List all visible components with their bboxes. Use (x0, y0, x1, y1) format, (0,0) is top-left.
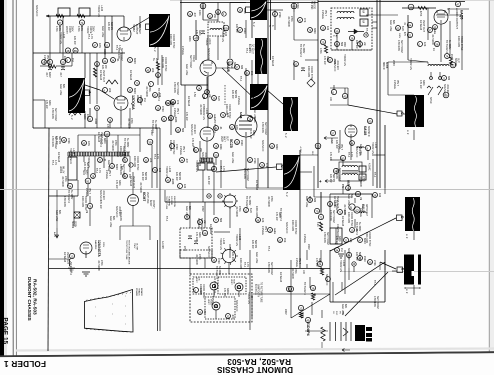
svg-text:B+ 265V: B+ 265V (70, 190, 73, 200)
svg-text:205V: 205V (392, 60, 395, 66)
svg-text:75KV: 75KV (133, 243, 135, 249)
svg-text:560 5%: 560 5% (144, 172, 147, 181)
svg-text:SET HORIZ: SET HORIZ (326, 232, 329, 245)
svg-text:PIN 7: PIN 7 (396, 80, 399, 87)
svg-text:.01: .01 (219, 126, 222, 130)
svg-text:TO TERM 3: TO TERM 3 (151, 120, 154, 133)
svg-text:SOUND IF: SOUND IF (207, 48, 210, 60)
svg-text:47K 1W: 47K 1W (329, 152, 332, 161)
svg-text:HORIZ LIN: HORIZ LIN (87, 156, 90, 168)
svg-text:330K: 330K (252, 130, 255, 136)
svg-text:3RD IF: 3RD IF (382, 62, 385, 70)
svg-text:SET HORIZ: SET HORIZ (332, 210, 335, 223)
svg-text:PAGE 15: PAGE 15 (1, 318, 8, 345)
svg-text:12K 2W: 12K 2W (231, 90, 234, 99)
svg-text:SET HORIZ: SET HORIZ (189, 55, 192, 68)
svg-text:2.2MEG: 2.2MEG (359, 208, 362, 217)
svg-text:47K 1W: 47K 1W (249, 130, 252, 139)
svg-text:2.2MEG: 2.2MEG (303, 234, 306, 243)
svg-text:.0033: .0033 (174, 116, 177, 123)
svg-text:B+ 265V: B+ 265V (126, 138, 129, 148)
svg-text:560 5%: 560 5% (332, 174, 335, 183)
svg-text:HORIZ LIN: HORIZ LIN (247, 292, 250, 304)
svg-text:SOUND IF: SOUND IF (99, 190, 102, 202)
svg-text:SET HORIZ: SET HORIZ (338, 168, 341, 181)
svg-text:TO PICTURE TUBE: TO PICTURE TUBE (260, 282, 262, 303)
svg-text:12K: 12K (423, 42, 426, 47)
svg-text:.047 600V: .047 600V (287, 16, 290, 27)
svg-text:4700 10%: 4700 10% (267, 262, 270, 274)
svg-text:AGC LINE: AGC LINE (55, 210, 58, 222)
svg-text:10%: 10% (98, 43, 101, 49)
svg-text:2.2MEG: 2.2MEG (337, 144, 340, 153)
svg-text:--: -- (124, 295, 127, 297)
svg-text:1M: 1M (85, 210, 87, 213)
svg-text:250K: 250K (92, 26, 95, 32)
svg-text:VERT OUT: VERT OUT (100, 132, 103, 145)
svg-text:WIDTH: WIDTH (65, 26, 68, 34)
svg-text:SPKR: SPKR (429, 97, 432, 104)
svg-text:.001 1KV: .001 1KV (336, 60, 339, 70)
svg-text:82K: 82K (188, 206, 191, 211)
svg-text:L-102: L-102 (168, 166, 171, 173)
svg-text:.047 600V: .047 600V (291, 268, 294, 279)
svg-text:HORIZ LIN: HORIZ LIN (219, 238, 222, 250)
svg-text:270K: 270K (114, 140, 117, 146)
svg-text:L-102: L-102 (100, 5, 103, 12)
svg-text:270K: 270K (198, 254, 201, 260)
svg-text:NORM: NORM (71, 221, 73, 228)
svg-text:1/2 6AU8: 1/2 6AU8 (271, 56, 274, 67)
svg-text:330K: 330K (422, 80, 425, 86)
svg-text:47K: 47K (106, 124, 109, 129)
svg-text:8.2K: 8.2K (249, 208, 252, 213)
svg-text:VERT: VERT (195, 277, 197, 283)
svg-text:100K 10%: 100K 10% (307, 66, 310, 78)
svg-text:SOUND IF: SOUND IF (355, 146, 358, 158)
svg-text:12K 2W: 12K 2W (141, 172, 144, 181)
svg-text:100K 10%: 100K 10% (161, 57, 164, 69)
svg-text:SET HORIZ: SET HORIZ (264, 122, 267, 135)
svg-text:2.2MEG: 2.2MEG (85, 188, 88, 197)
svg-text:AGC LINE: AGC LINE (101, 26, 104, 38)
svg-text:FROM SYNC: FROM SYNC (172, 34, 175, 49)
svg-text:AGC LINE: AGC LINE (185, 206, 188, 218)
svg-text:MULT: MULT (223, 136, 225, 143)
svg-text:VERT OUT: VERT OUT (132, 176, 135, 189)
svg-text:15K: 15K (450, 54, 453, 59)
svg-text:HORIZ LIN: HORIZ LIN (343, 54, 346, 66)
svg-text:560 5%: 560 5% (358, 40, 361, 49)
svg-text:100K 10%: 100K 10% (239, 258, 242, 270)
svg-text:2700: 2700 (183, 246, 185, 252)
svg-text:HORIZ LIN: HORIZ LIN (69, 148, 72, 160)
svg-text:.047 600V: .047 600V (61, 176, 64, 187)
svg-text:CONT: CONT (68, 26, 71, 33)
svg-text:4.7K: 4.7K (222, 166, 225, 171)
svg-text:560 5%: 560 5% (254, 240, 257, 249)
svg-text:SOUND: SOUND (454, 58, 456, 67)
svg-text:HORIZ: HORIZ (86, 26, 89, 34)
svg-text:100K: 100K (198, 10, 201, 16)
svg-text:4700 10%: 4700 10% (173, 82, 176, 94)
svg-text:--: -- (124, 315, 127, 317)
svg-text:10K: 10K (302, 270, 304, 275)
svg-text:L101: L101 (69, 159, 71, 165)
svg-text:HORIZ: HORIZ (205, 38, 208, 46)
svg-text:600V: 600V (133, 58, 136, 64)
svg-text:560: 560 (181, 128, 184, 133)
svg-text:10%: 10% (235, 125, 238, 131)
svg-text:2.2MEG: 2.2MEG (295, 258, 298, 267)
svg-text:.047: .047 (45, 72, 48, 77)
svg-text:47K 1W: 47K 1W (275, 212, 278, 221)
svg-text:VERT OUT: VERT OUT (102, 70, 105, 83)
svg-text:HORIZ LIN: HORIZ LIN (339, 260, 342, 272)
svg-text:B+ 265V: B+ 265V (218, 266, 221, 276)
svg-text:FROM SYNC: FROM SYNC (350, 212, 353, 227)
svg-text:12K 2W: 12K 2W (235, 24, 238, 33)
svg-text:100K 10%: 100K 10% (119, 146, 122, 158)
svg-text:17: 17 (105, 133, 109, 137)
svg-text:1/2 6AU8: 1/2 6AU8 (129, 176, 132, 187)
svg-text:TO PICTURE TUBE: TO PICTURE TUBE (125, 240, 127, 260)
svg-text:100K 10%: 100K 10% (291, 220, 294, 232)
svg-text:.047 600V: .047 600V (139, 182, 142, 193)
svg-text:TP-4: TP-4 (373, 172, 376, 178)
svg-text:SOUND IF: SOUND IF (333, 60, 336, 72)
svg-text:1/2 6AU8: 1/2 6AU8 (255, 180, 258, 191)
svg-text:245V: 245V (201, 206, 204, 212)
svg-text:22K: 22K (349, 238, 352, 243)
svg-text:VERT: VERT (220, 136, 222, 143)
svg-text:47K: 47K (176, 100, 179, 105)
svg-text:TO TERM 3: TO TERM 3 (355, 222, 358, 235)
svg-text:4700 10%: 4700 10% (323, 232, 326, 244)
svg-text:B+ 265V: B+ 265V (302, 44, 305, 54)
svg-text:4700 10%: 4700 10% (261, 122, 264, 134)
svg-text:TO TERM 3: TO TERM 3 (303, 282, 306, 295)
svg-text:SOUND IF: SOUND IF (115, 206, 118, 218)
svg-text:470K: 470K (77, 26, 80, 32)
svg-text:10K: 10K (329, 97, 331, 102)
svg-text:4700 10%: 4700 10% (373, 296, 376, 308)
svg-text:22K: 22K (149, 158, 152, 163)
svg-text:PIN 7: PIN 7 (324, 10, 327, 17)
svg-text:4.7K: 4.7K (248, 48, 251, 53)
svg-text:1/2 6AU8: 1/2 6AU8 (97, 132, 100, 143)
svg-text:100K 10%: 100K 10% (457, 36, 460, 48)
svg-text:SOUND IF: SOUND IF (347, 248, 350, 260)
svg-text:100K 10%: 100K 10% (225, 104, 228, 116)
svg-text:330K: 330K (198, 30, 201, 36)
svg-text:10%: 10% (87, 141, 90, 147)
svg-text:560 5%: 560 5% (358, 252, 361, 261)
svg-text:470K: 470K (67, 138, 70, 144)
svg-text:12K 2W: 12K 2W (55, 136, 58, 145)
svg-text:B+ 265V: B+ 265V (248, 196, 251, 206)
svg-text:5-: 5- (268, 25, 271, 27)
svg-text:DRIVE: DRIVE (89, 26, 92, 34)
svg-text:270K: 270K (100, 260, 103, 266)
svg-text:AGC LINE: AGC LINE (389, 20, 392, 32)
svg-text:HORIZ LIN: HORIZ LIN (195, 160, 198, 172)
svg-text:B+ 265V: B+ 265V (154, 120, 157, 130)
svg-text:3300: 3300 (275, 144, 278, 150)
svg-text:.047 600V: .047 600V (127, 118, 130, 129)
svg-text:SOUND IF: SOUND IF (261, 140, 264, 152)
svg-text:+135V: +135V (299, 146, 301, 153)
svg-text:4.7K: 4.7K (118, 45, 121, 50)
svg-text:PIN 7: PIN 7 (108, 170, 111, 177)
svg-text:SET HORIZ: SET HORIZ (122, 164, 125, 177)
svg-text:1/2 6AU8: 1/2 6AU8 (57, 152, 60, 163)
svg-text:TO TERM 3: TO TERM 3 (69, 262, 72, 275)
svg-text:1/2 6AU8: 1/2 6AU8 (187, 96, 190, 107)
svg-text:RA-502, RA-503: RA-502, RA-503 (32, 279, 38, 315)
svg-text:4700 10%: 4700 10% (335, 168, 338, 180)
svg-text:DUMONT CHASSIS: DUMONT CHASSIS (217, 365, 293, 374)
svg-text:120: 120 (183, 184, 186, 189)
svg-text:FOC: FOC (335, 311, 337, 316)
svg-text:.047: .047 (231, 314, 234, 319)
svg-text:PIN 7: PIN 7 (176, 108, 179, 115)
svg-text:TP-4: TP-4 (243, 262, 246, 268)
svg-text:560: 560 (219, 218, 222, 223)
svg-text:HORIZ LIN: HORIZ LIN (235, 234, 238, 246)
svg-text:12K 2W: 12K 2W (355, 40, 358, 49)
svg-text:330K: 330K (278, 212, 281, 218)
svg-text:PIN 7: PIN 7 (88, 188, 91, 195)
svg-text:L-102: L-102 (342, 260, 345, 267)
svg-text:100K 10%: 100K 10% (169, 34, 172, 46)
svg-text:PIN 7: PIN 7 (340, 144, 343, 151)
svg-text:SOUND IF: SOUND IF (367, 126, 369, 138)
svg-text:12K 2W: 12K 2W (73, 36, 76, 45)
svg-text:2.2MEG: 2.2MEG (43, 55, 46, 64)
svg-text:VERT: VERT (230, 279, 232, 285)
svg-text:L-102: L-102 (238, 234, 241, 241)
svg-text:12K 2W: 12K 2W (355, 252, 358, 261)
svg-text:47K 1W: 47K 1W (195, 232, 198, 241)
svg-text:21DAP4: 21DAP4 (306, 322, 310, 336)
svg-text:TP-4: TP-4 (87, 34, 90, 40)
svg-text:82K: 82K (112, 216, 115, 221)
svg-text:560 5%: 560 5% (178, 172, 181, 181)
svg-text:330K: 330K (48, 100, 51, 106)
svg-text:AGC LINE: AGC LINE (305, 196, 308, 208)
svg-text:180K: 180K (188, 36, 191, 42)
svg-text:1M: 1M (359, 197, 361, 200)
svg-text:180K: 180K (219, 144, 222, 150)
svg-text:TP-4: TP-4 (165, 216, 168, 222)
svg-text:AGC LINE: AGC LINE (255, 252, 258, 264)
svg-text:SET HORIZ: SET HORIZ (176, 82, 179, 95)
svg-text:TO TERM 3: TO TERM 3 (245, 196, 248, 209)
svg-text:330K: 330K (326, 56, 329, 62)
svg-text:82K: 82K (350, 194, 353, 199)
svg-text:100K 10%: 100K 10% (255, 206, 258, 218)
svg-text:100: 100 (158, 168, 161, 173)
svg-text:4700 10%: 4700 10% (63, 196, 66, 208)
svg-text:4700: 4700 (217, 258, 220, 264)
svg-text:15K: 15K (283, 238, 286, 243)
svg-text:12K 2W: 12K 2W (207, 176, 210, 185)
svg-text:8.2K: 8.2K (217, 96, 220, 101)
svg-text:4700 10%: 4700 10% (329, 210, 332, 222)
svg-text:SET HORIZ: SET HORIZ (376, 296, 379, 309)
svg-text:6BQ6GT: 6BQ6GT (138, 24, 141, 34)
svg-text:47K 1W: 47K 1W (335, 236, 338, 245)
svg-text:VERT OUT: VERT OUT (66, 252, 69, 265)
svg-text:MILLIV: MILLIV (62, 166, 64, 174)
svg-text:1K: 1K (432, 48, 435, 51)
svg-text:VERT: VERT (207, 299, 209, 305)
svg-text:82K: 82K (392, 20, 395, 25)
svg-text:SET HORIZ: SET HORIZ (246, 168, 249, 181)
svg-text:1/2 6AU8: 1/2 6AU8 (129, 70, 132, 81)
svg-text:L-102: L-102 (205, 108, 208, 115)
svg-text:B+: B+ (152, 58, 155, 62)
svg-text:6AU8: 6AU8 (226, 62, 230, 72)
svg-text:4.7K: 4.7K (54, 160, 57, 165)
svg-text:12K: 12K (101, 65, 104, 70)
svg-text:OUT: OUT (457, 58, 459, 63)
svg-text:12K 2W: 12K 2W (107, 22, 110, 31)
svg-text:TO TERM 3: TO TERM 3 (67, 190, 70, 203)
svg-text:5: 5 (350, 206, 352, 210)
svg-text:1/2 6AU8: 1/2 6AU8 (333, 196, 336, 207)
svg-text:330: 330 (313, 198, 316, 203)
svg-text:.0033: .0033 (94, 118, 97, 125)
svg-text:JUNCTION: JUNCTION (173, 196, 175, 207)
svg-text:G2 GRID: G2 GRID (170, 196, 172, 205)
svg-text:270K: 270K (373, 260, 376, 266)
svg-text:VERT OUT: VERT OUT (422, 20, 425, 33)
svg-text:SET HORIZ: SET HORIZ (400, 40, 403, 53)
svg-text:FROM SYNC: FROM SYNC (228, 104, 231, 119)
svg-text:--: -- (124, 305, 127, 307)
svg-text:270K: 270K (238, 206, 241, 212)
svg-text:82K: 82K (344, 304, 347, 309)
svg-text:2.2MEG: 2.2MEG (105, 170, 108, 179)
svg-text:SOUND IF: SOUND IF (190, 124, 193, 136)
svg-text:.047 600V: .047 600V (195, 254, 198, 265)
svg-text:600V: 600V (115, 164, 118, 170)
svg-text:12K 2W: 12K 2W (231, 252, 234, 261)
svg-text:230V: 230V (284, 309, 287, 315)
svg-text:+: + (319, 179, 322, 184)
svg-text:6CB6: 6CB6 (385, 62, 388, 69)
svg-text:3300: 3300 (171, 101, 174, 107)
svg-text:HORIZ: HORIZ (132, 24, 135, 32)
svg-text:6AQ5: 6AQ5 (460, 10, 464, 19)
svg-text:91: 91 (86, 180, 90, 184)
svg-text:TP-4: TP-4 (51, 160, 54, 166)
svg-text:330K: 330K (318, 258, 321, 264)
svg-text:1/2 6AU8: 1/2 6AU8 (419, 20, 422, 31)
svg-text:12K 2W: 12K 2W (329, 174, 332, 183)
svg-text:HORIZ LIN: HORIZ LIN (202, 108, 205, 120)
svg-text:AGC LINE: AGC LINE (59, 84, 62, 96)
svg-text:TO TERM 3: TO TERM 3 (123, 138, 126, 151)
svg-text:20: 20 (316, 145, 320, 149)
svg-text:.001 1KV: .001 1KV (446, 84, 449, 94)
svg-text:HORIZ LIN: HORIZ LIN (59, 32, 62, 44)
svg-text:TP-4: TP-4 (153, 154, 156, 160)
svg-text:4700 10%: 4700 10% (197, 218, 200, 230)
svg-text:2W: 2W (213, 14, 216, 18)
svg-text:TO TERM 3: TO TERM 3 (157, 88, 160, 101)
svg-text:SOUND IF: SOUND IF (207, 246, 210, 258)
svg-text:1M: 1M (71, 58, 74, 61)
svg-text:TP-4: TP-4 (347, 152, 350, 158)
svg-text:B+ 265V: B+ 265V (358, 222, 361, 232)
svg-text:.047 600V: .047 600V (359, 176, 362, 187)
svg-text:8.2K: 8.2K (316, 222, 318, 227)
svg-text:SET HORIZ: SET HORIZ (270, 262, 273, 275)
svg-text:.047: .047 (193, 12, 196, 17)
svg-text:audio: audio (273, 228, 276, 235)
svg-text:.047 600V: .047 600V (431, 34, 434, 45)
svg-text:VERT OSC: VERT OSC (146, 192, 148, 204)
svg-text:47K 1W: 47K 1W (323, 56, 326, 65)
svg-text:100: 100 (378, 193, 381, 198)
svg-text:FROM SYNC: FROM SYNC (172, 140, 175, 155)
svg-text:2.2MEG: 2.2MEG (181, 46, 184, 55)
svg-text:SET HORIZ: SET HORIZ (54, 108, 57, 121)
svg-text:4.7K: 4.7K (350, 152, 353, 157)
svg-text:VERT OUT: VERT OUT (336, 196, 339, 209)
svg-text:270K: 270K (148, 86, 151, 92)
svg-text:2.2MEG: 2.2MEG (393, 80, 396, 89)
svg-text:6800: 6800 (103, 138, 106, 144)
svg-text:--: -- (94, 315, 97, 317)
svg-text:270K: 270K (278, 12, 281, 18)
svg-text:2.2MEG: 2.2MEG (237, 96, 240, 105)
svg-text:.001 1KV: .001 1KV (204, 152, 207, 162)
svg-text:330K: 330K (118, 180, 121, 186)
svg-text:AGC LINE: AGC LINE (109, 216, 112, 228)
svg-text:200V: 200V (307, 244, 310, 250)
svg-text:B+ 265V: B+ 265V (448, 40, 451, 50)
svg-text:3300: 3300 (313, 28, 316, 34)
svg-text:OUT: OUT (225, 136, 227, 141)
svg-text:330K: 330K (226, 288, 229, 294)
svg-text:10: 10 (409, 6, 413, 10)
svg-text:3300: 3300 (83, 114, 86, 120)
svg-text:.01: .01 (103, 158, 106, 162)
svg-text:12DQ6A: 12DQ6A (131, 95, 135, 110)
svg-text:1M: 1M (313, 293, 315, 296)
svg-text:47K: 47K (265, 163, 268, 168)
svg-text:47K 1W: 47K 1W (45, 100, 48, 109)
svg-text:1/2 6AU8: 1/2 6AU8 (279, 272, 282, 283)
svg-text:1500: 1500 (363, 256, 366, 262)
svg-text:6CM7: 6CM7 (149, 200, 152, 207)
svg-text:TO TERM 3: TO TERM 3 (299, 44, 302, 57)
svg-text:FROM SYNC: FROM SYNC (164, 57, 167, 72)
svg-text:47K 1W: 47K 1W (195, 30, 198, 39)
svg-text:330: 330 (447, 76, 450, 81)
svg-text:12K: 12K (261, 218, 264, 223)
svg-text:560 5%: 560 5% (234, 90, 237, 99)
svg-text:2.2MEG: 2.2MEG (321, 10, 324, 19)
svg-text:4.7K: 4.7K (90, 34, 93, 39)
svg-text:4700 10%: 4700 10% (119, 210, 122, 222)
svg-text:HORIZ LIN: HORIZ LIN (371, 142, 374, 154)
svg-text:SOUND IF: SOUND IF (235, 300, 238, 312)
